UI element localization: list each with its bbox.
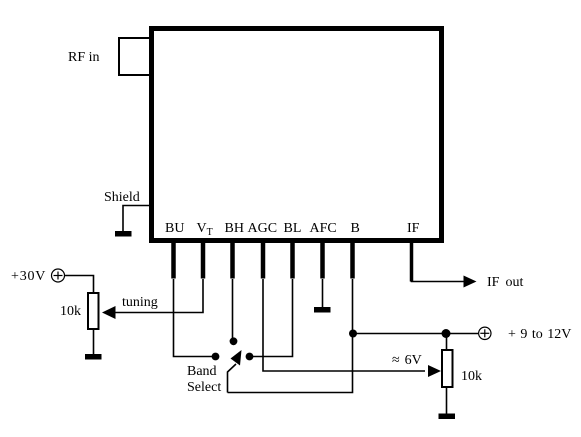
- wire R1 bottom to ground: [93, 329, 95, 354]
- wire B node to supply node: [353, 333, 478, 335]
- RF in connector: [119, 38, 150, 75]
- node supply junction: [442, 329, 451, 338]
- wire +30V to potentiometer R1: [65, 276, 94, 293]
- svg-text:tuning: tuning: [122, 295, 158, 310]
- pin IF: [410, 242, 414, 282]
- wire AGC pin to 6V arrow: [263, 279, 425, 371]
- ground AFC: [314, 307, 331, 313]
- potentiometer R1 10k body: [88, 293, 99, 329]
- pin VT: [201, 242, 206, 279]
- svg-text:Shield: Shield: [104, 190, 140, 205]
- ground R2: [439, 414, 456, 420]
- arrow ~6V into R2: [428, 365, 441, 377]
- switch lever (band select): [228, 364, 237, 393]
- svg-text:RF in: RF in: [68, 50, 100, 65]
- wire supply node to resistor R2: [446, 334, 448, 351]
- svg-text:AFC: AFC: [310, 221, 337, 236]
- pin B: [350, 242, 355, 279]
- supply + 9 to 12V terminal: [479, 327, 491, 339]
- node band select left contact: [212, 353, 220, 361]
- wire B pin down through node to switch lever: [228, 279, 353, 393]
- pin BL: [290, 242, 295, 279]
- wire AFC pin to ground: [322, 279, 324, 307]
- supply +30V terminal: [52, 269, 65, 282]
- wire wiper to VT pin: [114, 279, 203, 313]
- svg-text:IF out: IF out: [487, 275, 523, 290]
- pin AFC: [320, 242, 325, 279]
- svg-text:+ 9 to 12V: + 9 to 12V: [508, 327, 571, 342]
- pin BH: [230, 242, 235, 279]
- pin BU: [171, 242, 176, 279]
- svg-text:≈ 6V: ≈ 6V: [392, 353, 422, 368]
- svg-text:Band: Band: [187, 364, 217, 379]
- svg-text:IF: IF: [407, 221, 420, 236]
- svg-text:B: B: [351, 221, 360, 236]
- node B junction: [349, 330, 357, 338]
- svg-text:10k: 10k: [461, 369, 482, 384]
- wiper arrow of R1: [102, 306, 116, 319]
- svg-text:AGC: AGC: [248, 221, 278, 236]
- arrow IF out: [464, 276, 477, 288]
- node band select top contact: [230, 337, 238, 345]
- pin AGC: [261, 242, 266, 279]
- svg-text:Select: Select: [187, 380, 221, 395]
- svg-text:+30V: +30V: [11, 269, 46, 284]
- wire R2 bottom to ground: [446, 388, 448, 414]
- wire shield to ground: [123, 206, 149, 232]
- wire BL pin to band select right contact: [252, 279, 293, 357]
- svg-text:BH: BH: [225, 221, 244, 236]
- ground R1: [85, 354, 102, 360]
- wire BU pin to band select left contact: [174, 279, 214, 357]
- node band select right contact: [246, 353, 254, 361]
- switch lever arrowhead: [231, 350, 242, 366]
- resistor R2 10k body: [442, 350, 453, 387]
- wire IF pin to IF out arrow: [412, 280, 467, 282]
- svg-text:BU: BU: [165, 221, 184, 236]
- tuner box U1: [152, 29, 442, 241]
- ground shield: [115, 231, 132, 237]
- svg-text:10k: 10k: [60, 304, 81, 319]
- svg-text:BL: BL: [284, 221, 302, 236]
- wire BH pin to band select top contact: [232, 279, 234, 338]
